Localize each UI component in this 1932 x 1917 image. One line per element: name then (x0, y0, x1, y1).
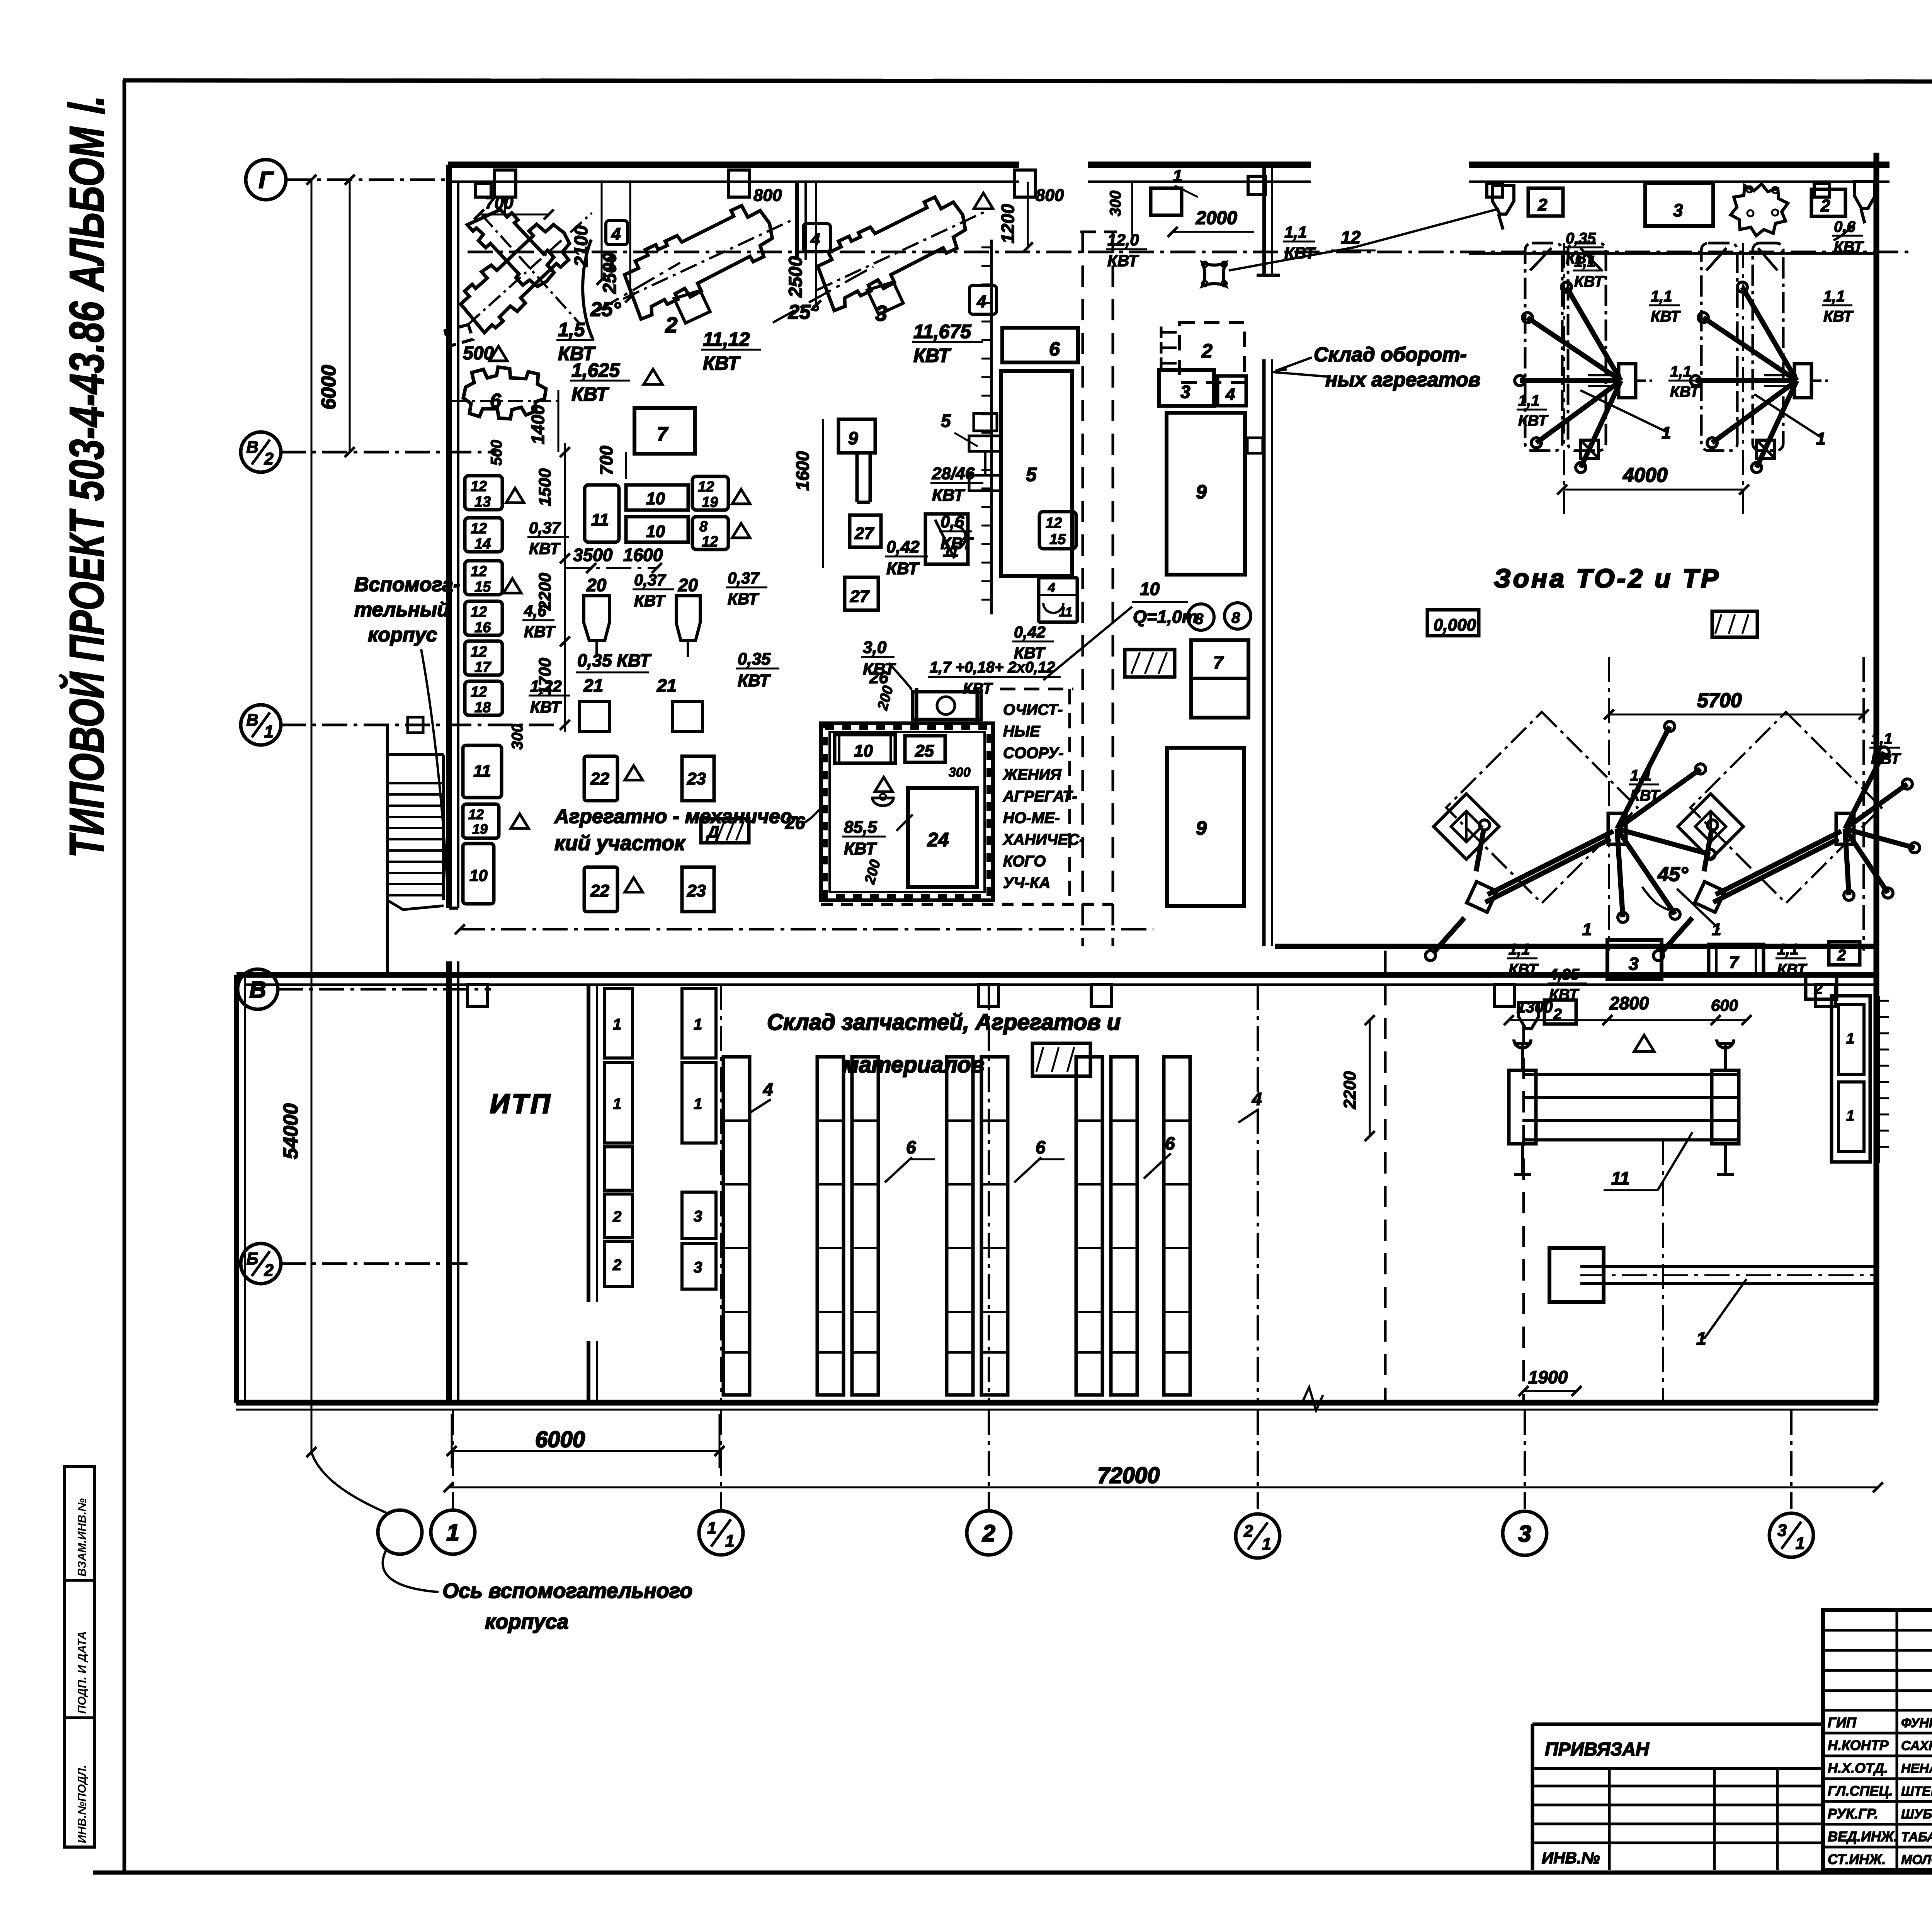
triangle in room (875, 777, 893, 792)
svg-text:0,37: 0,37 (728, 569, 760, 587)
axis V line (278, 988, 491, 991)
box 7 upper (634, 408, 695, 454)
svg-text:5: 5 (1026, 464, 1037, 485)
svg-text:ЖЕНИЯ: ЖЕНИЯ (1002, 766, 1061, 783)
svg-text:УЧ-КА: УЧ-КА (1003, 874, 1050, 891)
svg-text:4: 4 (763, 1079, 773, 1099)
svg-text:НЫЕ: НЫЕ (1003, 723, 1041, 740)
box 3 tr (1645, 183, 1713, 226)
hanger symbol 3 (1014, 170, 1036, 197)
svg-text:Вспомога-: Вспомога- (354, 573, 460, 596)
svg-text:КВТ: КВТ (886, 559, 920, 578)
svg-text:4000: 4000 (1622, 464, 1668, 486)
svg-text:10: 10 (646, 489, 665, 508)
svg-text:15: 15 (474, 579, 491, 595)
svg-text:1500: 1500 (536, 468, 554, 506)
box 2 lr a (1544, 1000, 1576, 1024)
svg-text:1,625: 1,625 (571, 359, 620, 381)
door mark on V/1 (408, 717, 423, 733)
svg-text:КВТ: КВТ (738, 671, 771, 690)
svg-text:10: 10 (1140, 579, 1160, 599)
svg-text:ТИПОВОЙ ПРОЕКТ 503-4-43.86 АЛ: ТИПОВОЙ ПРОЕКТ 503-4-43.86 АЛЬБОМ Ⅰ. (59, 95, 114, 858)
svg-text:4: 4 (1252, 1089, 1262, 1109)
svg-text:700: 700 (596, 446, 616, 475)
axis 3/1 circle (1769, 1513, 1813, 1557)
svg-text:28/46: 28/46 (932, 464, 975, 483)
svg-text:В: В (247, 711, 259, 730)
box 12/19 (692, 476, 728, 510)
svg-text:21: 21 (583, 675, 603, 696)
box 10 a (626, 485, 688, 510)
aux axis circle (378, 1510, 422, 1554)
right wall of building (1874, 153, 1879, 1403)
svg-text:1: 1 (1846, 1108, 1854, 1124)
partition x3280 upper (1262, 165, 1266, 275)
svg-text:1,1: 1,1 (1518, 392, 1540, 409)
axis line vertical (720, 1410, 722, 1509)
svg-text:1: 1 (613, 1095, 621, 1112)
svg-text:6: 6 (490, 390, 502, 412)
dash-dot bay rect A1 (1525, 243, 1562, 451)
box 12/16? right lower (1039, 578, 1077, 622)
boxes 22 23 row1 (584, 756, 617, 801)
dash-dot bay rect B2 (1753, 243, 1783, 451)
arc 25 deg (583, 240, 593, 340)
middle segment small eq: box1 (1151, 188, 1182, 215)
svg-text:2: 2 (1820, 196, 1830, 215)
svg-text:корпуса: корпуса (485, 1610, 568, 1633)
svg-text:12,0: 12,0 (1107, 231, 1139, 249)
hatched box D2 (1125, 650, 1175, 677)
svg-text:Склад запчастей, Агрегатов: Склад запчастей, Агрегатов и (767, 1010, 1121, 1035)
svg-text:Б: Б (247, 1250, 259, 1268)
svg-text:1,1: 1,1 (1823, 288, 1845, 305)
svg-text:КВТ: КВТ (1630, 787, 1661, 804)
svg-text:11: 11 (1059, 605, 1072, 619)
big rect 9 lower (1167, 748, 1244, 906)
svg-text:3: 3 (1673, 200, 1683, 220)
svg-text:1700: 1700 (536, 658, 554, 696)
rack 4 right (1164, 1057, 1190, 1395)
svg-text:КВТ: КВТ (844, 839, 877, 858)
box 2 tr a (1528, 188, 1563, 216)
svg-text:800: 800 (753, 186, 782, 205)
svg-text:ИНВ.№ПОДЛ.: ИНВ.№ПОДЛ. (76, 1765, 88, 1843)
hatch squares in bays (1580, 440, 1599, 458)
rotary lift A (1608, 813, 1626, 844)
axis B/2 circle (241, 1243, 281, 1284)
box 24 in room (908, 788, 977, 887)
svg-text:СТ.ИНЖ.: СТ.ИНЖ. (1828, 1851, 1886, 1867)
svg-text:1,1: 1,1 (1651, 288, 1672, 305)
svg-text:КВТ: КВТ (932, 486, 965, 505)
box 3 lr (1607, 940, 1662, 979)
box 4 third (969, 286, 997, 314)
ITP right wall (587, 985, 590, 1302)
axis line vertical (988, 1410, 990, 1509)
leader to wall (421, 649, 448, 900)
device at wall x2550 (974, 413, 997, 431)
svg-text:ИТП: ИТП (490, 1089, 552, 1119)
boxes 3 and 4 above 9 (1159, 370, 1214, 406)
svg-text:12: 12 (471, 520, 487, 537)
hatched label box B/t (1032, 1043, 1090, 1076)
svg-text:0,42: 0,42 (886, 538, 920, 556)
dim 1400 rot (558, 390, 560, 452)
svg-text:300: 300 (949, 765, 971, 780)
svg-text:85,5: 85,5 (844, 818, 877, 837)
svg-text:1: 1 (264, 723, 274, 741)
rotary lift B diamond (1678, 794, 1743, 859)
aux axis leader (311, 1452, 386, 1513)
svg-text:КВТ: КВТ (963, 680, 993, 697)
svg-text:1: 1 (707, 1519, 716, 1538)
rack right with 1 1 (1832, 996, 1870, 1162)
svg-text:19: 19 (472, 821, 488, 837)
svg-text:12: 12 (471, 644, 487, 660)
dim 5700 (1609, 714, 1864, 716)
partition x3280 long (1262, 359, 1266, 946)
tyre machine B (fan) (1794, 364, 1811, 398)
svg-text:0,42: 0,42 (1014, 623, 1046, 641)
svg-text:1: 1 (1846, 1031, 1854, 1047)
storage shelf column A (605, 988, 633, 1058)
svg-text:КВТ: КВТ (1670, 383, 1701, 400)
left wall of main hall (446, 165, 452, 908)
axis V/1 line (281, 724, 556, 726)
rotary lift A dash diamond (1446, 712, 1638, 903)
svg-text:МОЛОДЦОВА: МОЛОДЦОВА (1901, 1852, 1932, 1867)
axis V/1 circle (241, 705, 281, 745)
machine 4/11 fan (925, 514, 968, 564)
svg-text:12: 12 (1046, 515, 1062, 531)
vert dim chain x1462 (564, 443, 566, 732)
svg-text:22: 22 (590, 769, 609, 788)
hatched label box D (701, 819, 749, 843)
svg-text:8: 8 (1195, 611, 1204, 628)
grinder 20 a (584, 596, 609, 641)
svg-text:0,37: 0,37 (634, 571, 666, 589)
boxes 11 12/19 10 lower-left (463, 745, 502, 798)
svg-text:В: В (247, 438, 259, 457)
hall bottom wall right part (1275, 944, 1876, 949)
svg-text:12: 12 (471, 478, 487, 495)
svg-text:1900: 1900 (1528, 1367, 1568, 1387)
axis 3 circle (1503, 1511, 1547, 1555)
vertical dim 6000 left (349, 180, 351, 452)
triangle above 7 (644, 369, 662, 384)
box 7 tall right (1191, 640, 1248, 718)
svg-text:0,37: 0,37 (529, 519, 561, 537)
svg-text:3: 3 (1629, 954, 1639, 974)
box 11 (585, 485, 619, 542)
svg-text:ПРИВЯЗАН: ПРИВЯЗАН (1545, 1739, 1650, 1760)
svg-text:КВТ: КВТ (571, 383, 610, 405)
box 21 b (672, 701, 702, 731)
storage top wall (236, 972, 1876, 978)
svg-text:1,5: 1,5 (558, 319, 585, 340)
svg-text:1300: 1300 (1517, 998, 1553, 1016)
svg-text:КВТ: КВТ (634, 592, 666, 610)
svg-text:2200: 2200 (1340, 1071, 1359, 1109)
svg-text:500: 500 (488, 440, 505, 466)
svg-text:23: 23 (687, 769, 706, 788)
box 7 lr (1709, 944, 1764, 975)
svg-text:3: 3 (1518, 1521, 1531, 1547)
mark 0.000 (1427, 610, 1479, 636)
svg-text:16: 16 (474, 619, 491, 636)
svg-text:6: 6 (1049, 338, 1060, 360)
svg-text:2: 2 (982, 1521, 995, 1546)
svg-text:КВТ: КВТ (524, 623, 556, 641)
svg-text:тельный: тельный (354, 599, 449, 621)
svg-text:КВТ: КВТ (1574, 273, 1605, 290)
svg-text:1,1: 1,1 (1630, 767, 1652, 784)
svg-text:НО-МЕ-: НО-МЕ- (1003, 810, 1060, 827)
svg-text:2: 2 (1201, 340, 1213, 362)
axis 2/1 dash in storage (1257, 985, 1259, 1403)
svg-text:22: 22 (590, 881, 609, 900)
dim 2500 vertical (629, 182, 631, 298)
axis 1/1 circle (699, 1511, 743, 1555)
column tab (476, 183, 491, 197)
title block signature table (1823, 1610, 1932, 1870)
svg-text:3: 3 (875, 301, 887, 325)
svg-text:12: 12 (471, 563, 487, 580)
svg-text:7: 7 (1213, 652, 1224, 672)
svg-text:11,675: 11,675 (913, 321, 971, 342)
washing room double-wall (821, 723, 993, 900)
axis 2/1 circle (1236, 1514, 1280, 1558)
T-pillar 9 (838, 419, 875, 453)
svg-text:2: 2 (1537, 196, 1548, 214)
svg-text:27: 27 (854, 524, 874, 543)
ITP left wall (234, 975, 239, 1403)
svg-text:РУК.ГР.: РУК.ГР. (1828, 1806, 1878, 1822)
dashdot y2405 (460, 928, 1153, 930)
big rect 5 (1001, 371, 1072, 576)
svg-text:3: 3 (1180, 382, 1190, 402)
svg-text:300: 300 (509, 724, 526, 750)
axis G circle (246, 160, 286, 200)
svg-text:КВТ: КВТ (703, 352, 741, 374)
svg-text:20: 20 (586, 575, 607, 595)
hanger symbol 2 (728, 170, 750, 197)
mark hatched box (1712, 611, 1757, 637)
svg-text:6: 6 (906, 1137, 916, 1157)
top wall right segment (1469, 162, 1889, 168)
triangle lr (1634, 1035, 1654, 1052)
top wall left segment (448, 162, 1019, 168)
door stub on partition (1247, 438, 1263, 453)
svg-text:2: 2 (1837, 947, 1846, 964)
svg-text:Агрегатно - механичес-: Агрегатно - механичес- (554, 805, 798, 828)
storage wall stubs (468, 985, 488, 1006)
svg-text:Склад оборот-: Склад оборот- (1314, 344, 1467, 366)
rotary lift B dash diamond (1690, 712, 1882, 903)
box 4 (606, 221, 628, 245)
column tab mid (1248, 176, 1265, 195)
svg-text:1,7 +0,18+ 2x0,12: 1,7 +0,18+ 2x0,12 (930, 659, 1055, 676)
svg-text:3: 3 (1777, 1521, 1787, 1540)
dim 4000 (1562, 489, 1744, 491)
solid line under top wall right (1469, 252, 1876, 255)
funnel symbol b (1855, 182, 1875, 223)
svg-text:26: 26 (785, 813, 805, 833)
axis B/2 line (281, 1262, 468, 1265)
svg-text:1,1: 1,1 (1670, 363, 1692, 380)
axis G line (286, 179, 448, 181)
svg-text:В: В (249, 977, 266, 1003)
leader arrow to wall (1273, 357, 1329, 377)
svg-text:21: 21 (656, 675, 677, 696)
svg-text:0,6: 0,6 (940, 512, 964, 531)
svg-text:0,35 КВТ: 0,35 КВТ (577, 650, 652, 670)
svg-text:ВЗАМ.ИНВ.№: ВЗАМ.ИНВ.№ (76, 1498, 88, 1577)
svg-text:6000: 6000 (535, 1427, 585, 1452)
svg-text:1: 1 (694, 1016, 702, 1033)
box 12/15 right (1039, 512, 1076, 549)
machine 6 jagged (452, 367, 560, 419)
test bench 11 (1522, 1073, 1739, 1076)
column tab (1814, 183, 1830, 197)
axis 2 circle (967, 1511, 1011, 1555)
svg-text:17: 17 (474, 659, 492, 675)
machine 1 cross milling (445, 191, 607, 346)
round device in room (872, 798, 893, 806)
svg-text:7: 7 (1729, 953, 1740, 972)
svg-text:Н.Х.ОТД.: Н.Х.ОТД. (1828, 1760, 1888, 1776)
svg-text:2: 2 (1243, 1522, 1253, 1541)
svg-text:25: 25 (915, 742, 934, 760)
svg-text:2200: 2200 (536, 573, 554, 611)
svg-text:1: 1 (1816, 429, 1825, 448)
triangle right (974, 193, 993, 209)
rack pair 3 (1076, 1057, 1102, 1395)
storage axis dashdot lines (720, 985, 722, 1403)
svg-text:24: 24 (927, 829, 949, 850)
box 6 (1002, 328, 1078, 362)
svg-text:Н.КОНТР: Н.КОНТР (1828, 1737, 1889, 1753)
axis V/2 line (281, 451, 497, 454)
svg-text:0,000: 0,000 (1434, 616, 1476, 634)
svg-text:12: 12 (1341, 227, 1361, 247)
svg-text:корпус: корпус (368, 624, 437, 646)
svg-text:12: 12 (471, 684, 487, 700)
svg-text:3500: 3500 (573, 545, 613, 565)
axis 1 circle (431, 1510, 475, 1554)
concave square symbol (1202, 263, 1226, 286)
equipment boxes 12/13..12/18 along left wall (465, 476, 502, 510)
machine 3 lathe (801, 179, 1007, 334)
svg-text:54000: 54000 (280, 1103, 302, 1159)
rotary lift A diamond (1434, 794, 1499, 859)
svg-text:1,1: 1,1 (1284, 223, 1307, 241)
svg-text:КВТ: КВТ (1823, 308, 1854, 325)
svg-text:0,35: 0,35 (738, 650, 771, 668)
svg-text:1600: 1600 (793, 451, 813, 491)
dash-dot bay rect A2 (1568, 243, 1606, 451)
svg-text:19: 19 (702, 494, 718, 510)
rack pair 2 (947, 1057, 973, 1395)
svg-text:САХНОВСКАЯ: САХНОВСКАЯ (1901, 1738, 1932, 1753)
rack pair 1 (817, 1057, 844, 1395)
svg-text:СООРУ-: СООРУ- (1003, 745, 1064, 762)
tyre machine A (fan) (1619, 364, 1636, 398)
svg-text:8: 8 (1231, 609, 1240, 626)
dim 2200 rot (1369, 1020, 1371, 1136)
svg-text:1: 1 (446, 1520, 459, 1546)
svg-text:КВТ: КВТ (1651, 308, 1681, 325)
svg-text:2: 2 (264, 450, 274, 468)
box 10 in room (835, 735, 895, 763)
svg-text:9: 9 (1196, 481, 1207, 503)
svg-text:15: 15 (1049, 531, 1066, 548)
rack 4 left (723, 1057, 750, 1395)
svg-text:1,1: 1,1 (1777, 941, 1799, 958)
svg-text:4: 4 (1048, 580, 1055, 595)
dash corridor storage (1522, 1024, 1525, 1403)
machine 2 lathe (608, 188, 813, 343)
hatch strip below room (821, 903, 1113, 906)
ticked line right (1878, 996, 1880, 1163)
svg-text:НЕНАХОВ: НЕНАХОВ (1901, 1761, 1932, 1776)
left wall lower segment (446, 961, 452, 1403)
svg-text:2500: 2500 (600, 252, 620, 294)
svg-text:300: 300 (1107, 191, 1124, 216)
svg-text:4: 4 (1225, 385, 1235, 404)
svg-text:1200: 1200 (998, 204, 1018, 243)
dim line 6000 bottom (452, 1450, 719, 1452)
box 27 lower (845, 577, 878, 610)
svg-text:18: 18 (474, 699, 491, 716)
funnel at 3955 (1519, 1003, 1539, 1028)
bay axis verticals (1563, 243, 1565, 514)
svg-text:5: 5 (941, 411, 951, 431)
top wall middle segment (1088, 162, 1311, 168)
crane circles 8 8 (1188, 604, 1214, 630)
monorail line (468, 251, 1913, 253)
axis line vertical (1790, 1410, 1793, 1509)
svg-text:1: 1 (694, 1095, 702, 1112)
box 2 small above rack (1829, 942, 1860, 965)
svg-text:1: 1 (1173, 167, 1182, 185)
svg-text:12: 12 (468, 806, 484, 822)
svg-text:1: 1 (1582, 920, 1592, 939)
svg-text:2100: 2100 (571, 225, 592, 267)
dash-dot bay rect B1 (1701, 243, 1737, 451)
svg-text:1,1: 1,1 (1509, 941, 1530, 958)
svg-text:2: 2 (264, 1261, 274, 1280)
svg-text:600: 600 (1711, 996, 1738, 1014)
svg-text:6000: 6000 (318, 365, 340, 410)
svg-text:3: 3 (694, 1208, 702, 1225)
dashed line x2880 (1112, 232, 1114, 946)
svg-text:1,1: 1,1 (1871, 730, 1893, 747)
svg-text:ОЧИСТ-: ОЧИСТ- (1003, 701, 1063, 718)
svg-text:10: 10 (469, 866, 488, 885)
svg-text:12: 12 (698, 479, 714, 495)
dashed cap (1080, 231, 1117, 233)
dashed box 2 middle (1179, 323, 1245, 383)
svg-text:КВТ: КВТ (1107, 252, 1139, 270)
svg-text:КВТ: КВТ (1871, 750, 1901, 767)
svg-text:6: 6 (1036, 1137, 1046, 1157)
svg-text:КВТ: КВТ (1518, 412, 1549, 429)
axis line vertical (1524, 1410, 1526, 1509)
svg-text:45°: 45° (1657, 863, 1689, 886)
svg-text:1: 1 (613, 1016, 621, 1033)
